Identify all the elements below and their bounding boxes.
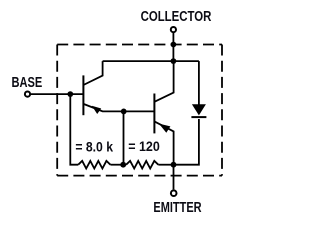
svg-text:BASE: BASE [12,75,43,91]
diode D1 [191,104,206,117]
wire collector rail [103,60,199,62]
junction dot on dashed border (collector wire) [171,42,177,48]
resistor R2 zigzag [126,161,158,169]
junction dot R1/R2/Q2-base-drop node [120,162,126,168]
transistor Q1 [83,61,124,115]
wire R1 to node [110,164,123,166]
collector terminal [171,27,176,32]
wire Q2 base node drop [123,111,125,164]
wire R1 left drop [70,94,78,165]
wire emitter node to emitter terminal [173,165,175,190]
svg-text:EMITTER: EMITTER [153,200,202,216]
junction dot Q1 emitter / Q2 base node [121,109,127,115]
base terminal [25,92,30,97]
wire base terminal to Q1 base [31,93,84,95]
wire node to R2 [123,164,126,166]
emitter terminal [171,190,177,196]
wire diode top [198,61,200,105]
junction dot emitter node [171,162,177,168]
wire Q2 base [124,110,155,112]
svg-text:COLLECTOR: COLLECTOR [141,9,212,25]
wire R2 to emitter node [158,164,173,166]
transistor Q2 [154,61,173,165]
junction dot collector rail node [171,58,177,64]
wire emitter node to diode branch [174,119,199,165]
svg-text:= 120: = 120 [128,139,160,154]
resistor R1 zigzag [78,161,110,169]
wire collector terminal to rail [172,33,174,61]
svg-text:= 8.0 k: = 8.0 k [75,140,113,155]
package outline dashed border [57,45,222,176]
junction dot base/R1 node [67,91,73,97]
